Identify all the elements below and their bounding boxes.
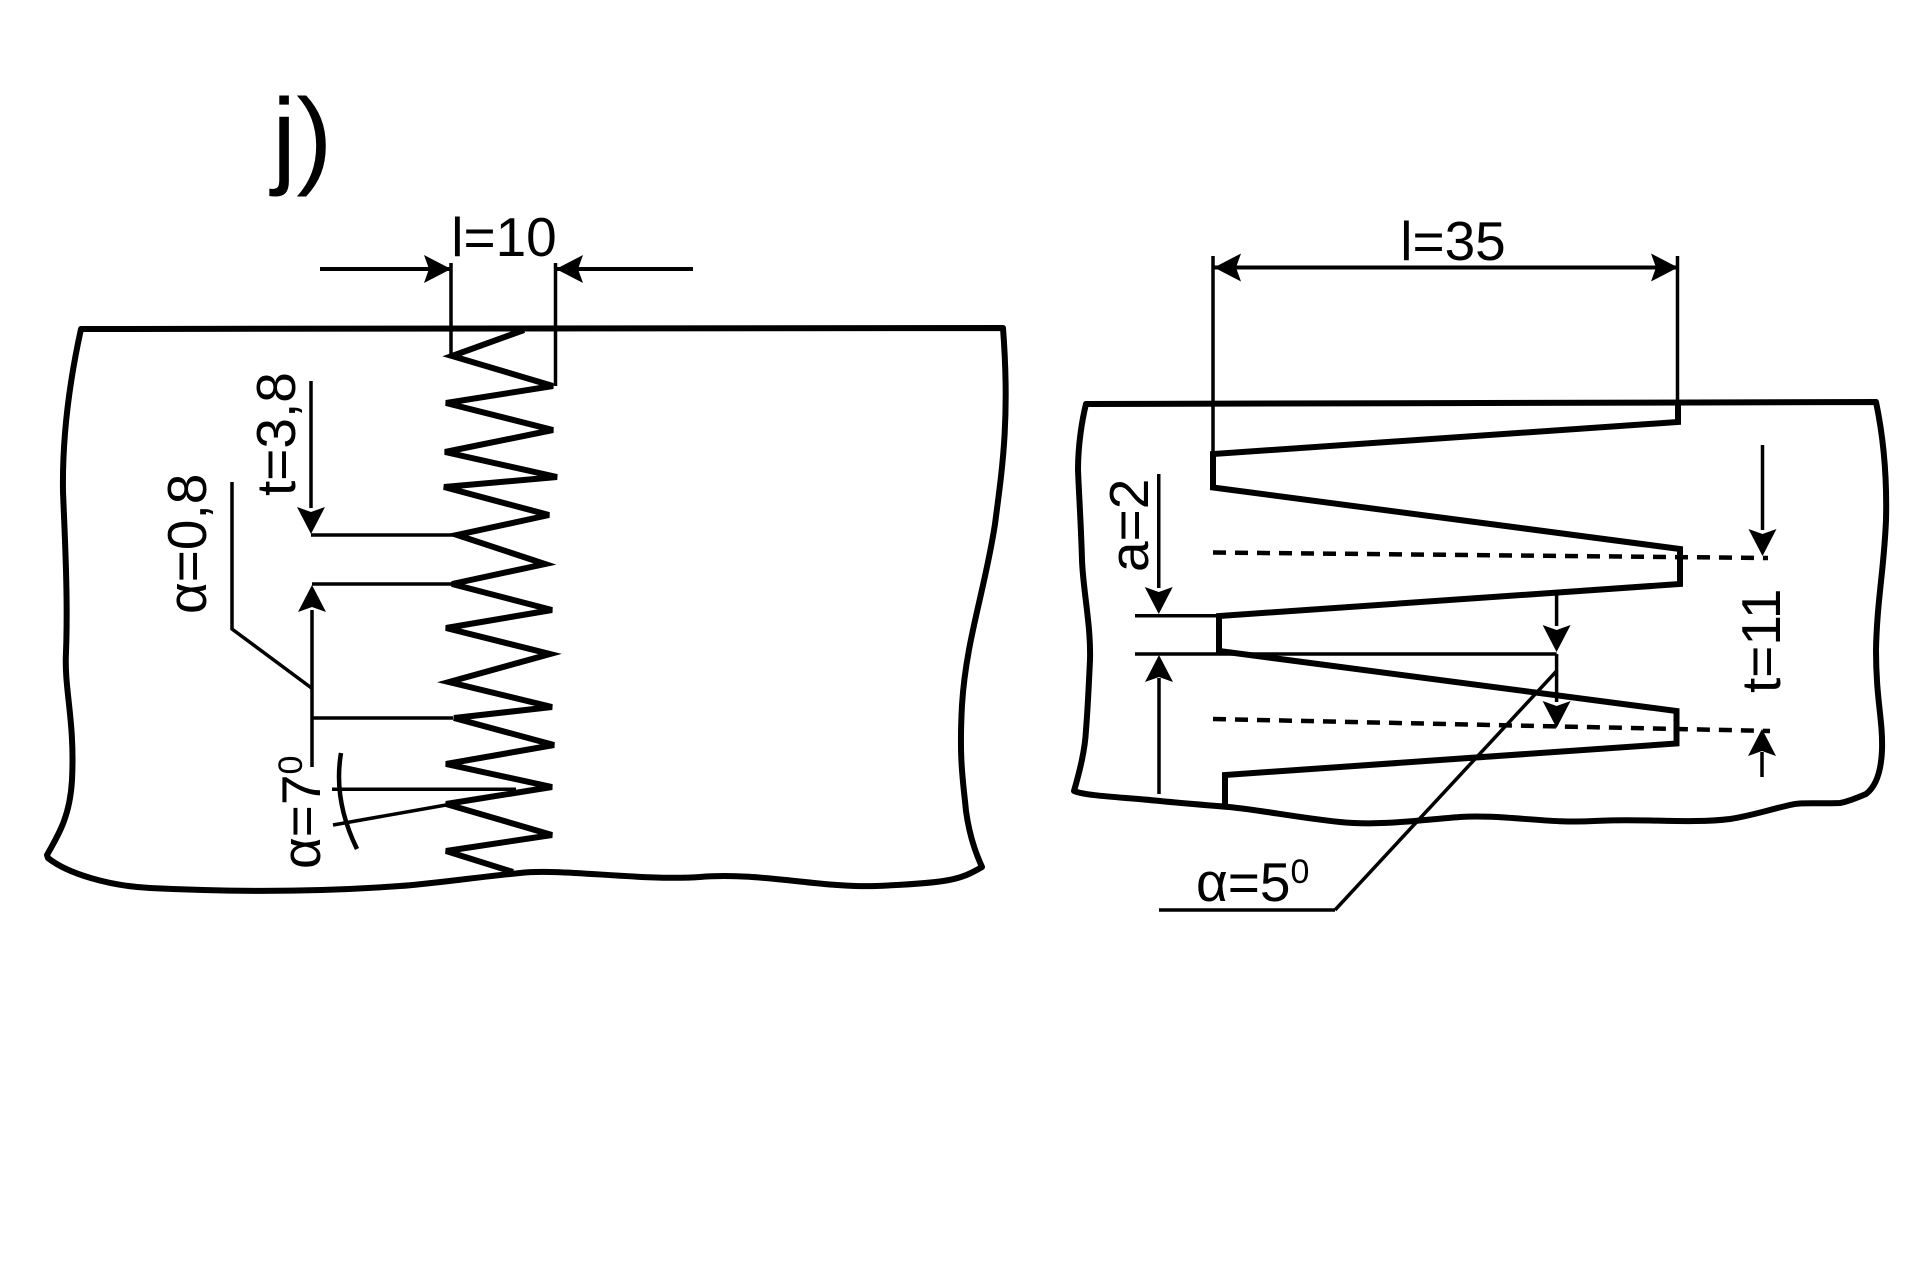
arrowhead up-pointing a=2 [1145,655,1173,682]
dimension line l=10 left part [320,267,451,271]
dimension line l=10 right part [556,267,693,271]
svg-text:t=11: t=11 [1730,589,1792,694]
right block outline [1074,402,1886,823]
arrowhead left-pointing [556,255,583,283]
svg-text:a=2: a=2 [1098,479,1160,572]
arrowhead down-pointing a=2 [1145,587,1173,614]
connector line at first pitch [311,533,457,537]
extension line l=35 right [1676,256,1680,420]
arrowhead up-pointing t lower [298,585,326,612]
serrated cut path [1213,402,1680,806]
dimension line t lower continuing [310,610,314,767]
arrowhead down-pointing t=11 [1749,529,1777,556]
dimension line a=2 lower [1157,678,1161,794]
mid vertical indicator line upper [1555,591,1559,626]
dimension line a=2 upper [1157,474,1161,588]
root reference line upper [1135,614,1219,618]
svg-text:l=35: l=35 [1400,210,1506,272]
root reference line lower [1135,652,1557,656]
arrowhead right-pointing l=35 [1651,254,1678,282]
centerline dashed upper [1213,553,1768,559]
leader line a=0,8 [232,482,312,688]
angle underline a=5 [1159,908,1335,912]
angle arc [339,753,357,849]
svg-text:j): j) [269,76,333,198]
dimension line t=11 lower [1760,752,1764,777]
extension line left [449,263,453,356]
left block outline [47,328,1006,891]
connector line at third pitch [312,716,453,720]
extension line l=35 left [1211,256,1215,454]
angle wedge flank extension line [333,805,446,825]
arrowhead down-pointing mid upper [1543,625,1571,652]
angle wedge reference line horizontal [332,788,516,792]
leader line a=5 [1335,671,1557,910]
arrowhead up-pointing t=11 [1748,729,1776,756]
arrowhead left-pointing l=35 [1214,254,1241,282]
extension line right [554,263,558,386]
svg-text:l=10: l=10 [451,206,557,268]
dimension line t upper [309,381,313,508]
dimension line l=35 [1214,266,1678,270]
svg-text:t=3,8: t=3,8 [245,372,307,496]
arrowhead down-pointing mid lower [1543,701,1571,728]
dimension line t=11 upper [1761,445,1765,530]
arrowhead down-pointing t upper [297,507,325,534]
svg-text:α=0,8: α=0,8 [156,474,218,614]
centerline dashed lower [1213,719,1770,731]
mid vertical indicator line lower [1555,654,1559,702]
connector line at second pitch [312,582,452,586]
arrowhead right-pointing [424,255,451,283]
zigzag joint line [444,330,557,872]
